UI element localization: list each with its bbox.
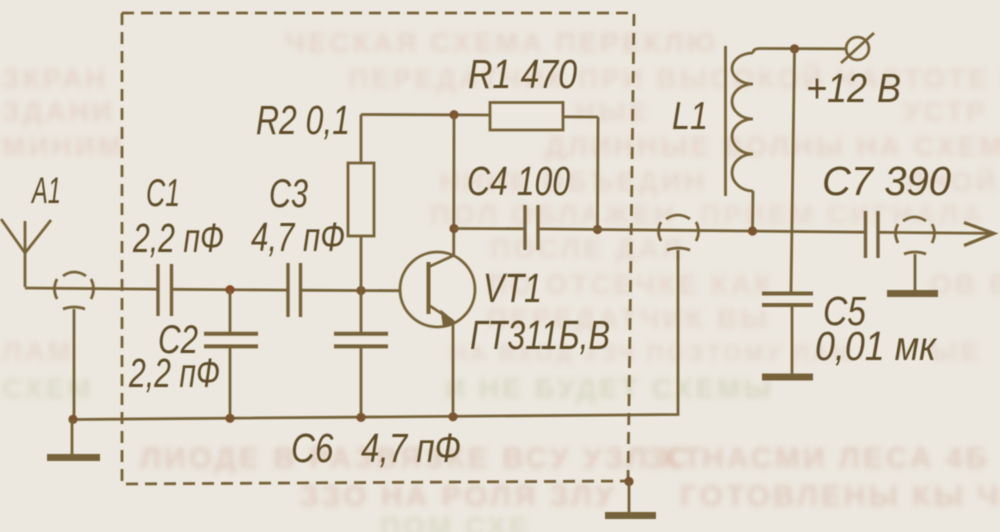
svg-text:СХЕМ: СХЕМ bbox=[2, 373, 94, 404]
wire collector to C7 bbox=[538, 229, 866, 232]
ground rail bbox=[72, 251, 678, 420]
svg-text:МИНИМ: МИНИМ bbox=[2, 131, 124, 162]
node rail emitter bbox=[448, 412, 457, 421]
wire input segment 2 bbox=[172, 288, 289, 292]
node +12V junction bbox=[790, 44, 799, 53]
svg-text:ЗЗО НА РОЛЯ ЗЛУ: ЗЗО НА РОЛЯ ЗЛУ bbox=[300, 480, 616, 513]
svg-text:ЗДАНИ: ЗДАНИ bbox=[2, 96, 115, 127]
wire collector vertical bbox=[452, 115, 455, 257]
capacitor C5 bbox=[762, 294, 813, 378]
svg-text:C7 390: C7 390 bbox=[822, 158, 951, 204]
output arrow bbox=[964, 223, 994, 246]
svg-text:C1: C1 bbox=[146, 172, 180, 215]
capacitor C7 bbox=[866, 211, 879, 258]
connector X1 bbox=[55, 272, 94, 419]
svg-text:L1: L1 bbox=[672, 95, 708, 138]
node R1 bottom junction bbox=[593, 225, 602, 234]
svg-text:УСТР: УСТР bbox=[903, 96, 988, 127]
capacitor C2 bbox=[204, 290, 258, 419]
svg-text:ПЕРЕДАТЧИК ПРИ ВЫСОКОЙ ЧАСТОТЕ: ПЕРЕДАТЧИК ПРИ ВЫСОКОЙ ЧАСТОТЕ НА bbox=[348, 62, 1000, 94]
resistor R1 bbox=[490, 103, 598, 230]
capacitor C1 bbox=[158, 264, 172, 316]
node top rail junction bbox=[449, 110, 458, 119]
svg-text:ГТ311Б,В: ГТ311Б,В bbox=[470, 312, 610, 358]
connector X2 bbox=[659, 215, 699, 260]
ground left bbox=[47, 420, 100, 458]
capacitor C4 bbox=[454, 205, 538, 250]
node L1 bottom bbox=[748, 226, 757, 235]
wire input segment 1 bbox=[25, 288, 158, 289]
svg-text:ЗКРАН: ЗКРАН bbox=[2, 63, 108, 94]
capacitor C3 bbox=[288, 263, 301, 317]
svg-text:R2 0,1: R2 0,1 bbox=[256, 97, 350, 143]
terminal +12V bbox=[841, 33, 874, 63]
wire top rail bbox=[361, 113, 490, 116]
node rail C6 bbox=[356, 413, 365, 422]
shield box dashed border bbox=[122, 13, 634, 484]
antenna A1 bbox=[1, 219, 51, 287]
svg-text:ЫЕ: ЫЕ bbox=[930, 336, 982, 367]
svg-text:C3: C3 bbox=[269, 172, 308, 216]
svg-text:A1: A1 bbox=[31, 170, 61, 211]
capacitor C6 bbox=[334, 291, 388, 418]
resistor R2 bbox=[348, 115, 374, 291]
node C1/C2 junction bbox=[225, 285, 234, 294]
wire input segment 3 bbox=[301, 289, 402, 292]
svg-text:C6 4,7 пФ: C6 4,7 пФ bbox=[291, 425, 461, 471]
svg-text:0,01 мк: 0,01 мк bbox=[815, 323, 937, 369]
svg-text:+12 В: +12 В bbox=[806, 65, 901, 111]
svg-text:4,7 пФ: 4,7 пФ bbox=[251, 214, 345, 260]
wire +12V vertical bbox=[791, 49, 795, 293]
shield ground bbox=[605, 477, 656, 516]
connector X3 bbox=[887, 217, 938, 294]
svg-text:ЗС НАСМИ ЛЕСА 4Б: ЗС НАСМИ ЛЕСА 4Б bbox=[645, 442, 990, 475]
node collector junction bbox=[449, 224, 458, 233]
svg-text:2,2 пФ: 2,2 пФ bbox=[128, 350, 220, 396]
node rail A1 bbox=[68, 415, 77, 424]
svg-text:ПОМ СХЕ: ПОМ СХЕ bbox=[380, 511, 531, 532]
transistor VT1 bbox=[400, 252, 475, 327]
wire output to arrow bbox=[878, 232, 991, 233]
svg-text:2,2 пФ: 2,2 пФ bbox=[132, 215, 224, 261]
inductor L1 bbox=[726, 46, 847, 231]
svg-text:VT1: VT1 bbox=[483, 265, 542, 311]
svg-text:R1 470: R1 470 bbox=[468, 51, 577, 97]
svg-text:ГОТОВЛЕНЫ КЫ ЧЕЙ: ГОТОВЛЕНЫ КЫ ЧЕЙ bbox=[680, 479, 1000, 513]
svg-text:ОВ В: ОВ В bbox=[930, 269, 1000, 300]
node rail C2 bbox=[225, 414, 234, 423]
svg-text:НЫЕ: НЫЕ bbox=[575, 96, 650, 127]
svg-text:C4 100: C4 100 bbox=[467, 158, 570, 204]
svg-text:ЛАМ: ЛАМ bbox=[2, 336, 74, 367]
svg-text:ПОСЛЕ ДАЛ: ПОСЛЕ ДАЛ bbox=[490, 233, 685, 264]
node base junction bbox=[356, 286, 365, 295]
svg-text:И НЕ БУДЕТ СХЕМЫ: И НЕ БУДЕТ СХЕМЫ bbox=[445, 373, 774, 404]
wire emitter vertical bbox=[452, 321, 455, 417]
